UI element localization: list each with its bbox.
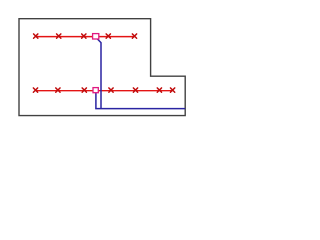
node B vertex square <box>93 88 98 93</box>
pin X11 <box>157 88 161 92</box>
pin X8 <box>82 88 86 92</box>
pin X5 <box>132 34 136 38</box>
pin X2 <box>57 34 61 38</box>
pin X1 <box>34 34 38 38</box>
pin X6 <box>33 88 37 92</box>
pin X7 <box>56 88 60 92</box>
pin X10 <box>133 88 137 92</box>
pin X4 <box>106 34 110 38</box>
wire net1 top red line <box>36 36 135 38</box>
wire blue horizontal bus <box>95 108 185 110</box>
pin X3 <box>82 34 86 38</box>
board outline <box>19 19 185 116</box>
node A vertex square <box>93 34 99 39</box>
wire blue vertical from node B <box>95 93 97 109</box>
wire blue vertical from node A <box>97 39 101 109</box>
wire net2 lower red line <box>36 90 173 92</box>
pin X9 <box>109 88 113 92</box>
pin X12 <box>170 88 174 92</box>
